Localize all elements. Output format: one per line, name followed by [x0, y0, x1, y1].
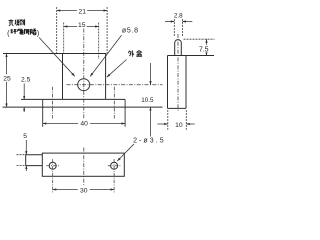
wire right hole centerline vertical: [113, 159, 115, 193]
wire plate right edge: [124, 99, 126, 126]
svg-text:(: (: [7, 28, 10, 37]
wire horizontal centerline: [67, 84, 163, 86]
node label-case-text: [128, 51, 142, 57]
wire plate left edge: [42, 99, 44, 126]
svg-text:10.5: 10.5: [141, 97, 154, 104]
wire left hole crosshair horizontal: [46, 165, 59, 167]
node bottom-view: [26, 148, 125, 193]
wire label-filler-leader: [39, 38, 75, 77]
node side-view: [168, 34, 215, 111]
wire case left wall: [62, 54, 64, 100]
svg-text:2.8: 2.8: [174, 12, 183, 19]
svg-text:ø5.8: ø5.8: [122, 28, 139, 35]
svg-text:30: 30: [80, 187, 88, 194]
svg-text:2.5: 2.5: [21, 77, 31, 84]
node dim-10.5: [141, 63, 154, 137]
node front-view: [3, 29, 163, 127]
node dim-5: [17, 133, 28, 171]
node label-filler-text: [7, 19, 39, 37]
node dim-7.5: [184, 39, 215, 55]
node dim-25: [3, 54, 12, 108]
wire terminal tab: [175, 40, 182, 56]
node dim-30: [53, 186, 114, 194]
svg-text:10: 10: [175, 122, 183, 129]
wire right hole centerline: [113, 87, 115, 119]
wire body top edge with 7.5 extension: [168, 55, 215, 57]
node dim-40: [43, 119, 125, 128]
wire label-dia5.8-leader: [90, 35, 121, 76]
node dim-15: [64, 22, 99, 60]
wire right hole crosshair horizontal: [108, 165, 121, 167]
node dim-2.8: [165, 12, 192, 36]
wire left hole centerline vertical: [52, 159, 54, 193]
svg-text:5: 5: [23, 133, 27, 140]
wire label-2-dia3.5-leader: [117, 144, 134, 161]
svg-text:21: 21: [78, 8, 86, 15]
svg-text:): ): [37, 29, 39, 38]
svg-text:15: 15: [78, 22, 86, 29]
node mounting hole left: [49, 162, 56, 169]
svg-text:25: 25: [3, 76, 11, 83]
wire plate bottom edge H2 with extensions: [3, 106, 163, 108]
wire case top edge with 25-dim extension: [3, 53, 106, 55]
wire bottom view centerline: [83, 148, 85, 187]
svg-text:40: 40: [80, 121, 88, 128]
wire body bottom edge: [168, 107, 187, 109]
svg-text:7.5: 7.5: [199, 47, 209, 54]
wire label-case-leader: [107, 60, 127, 78]
wire body left edge: [167, 56, 169, 109]
wire plate top edge H1: [21, 98, 125, 100]
node dim-10-side: [158, 110, 195, 130]
wire vertical centerline: [83, 29, 85, 121]
node mounting hole right: [111, 162, 118, 169]
node hole circle: [78, 79, 90, 91]
node dim-21: [57, 7, 107, 53]
svg-text:2-ø3.5: 2-ø3.5: [133, 138, 164, 145]
wire body right edge: [185, 56, 187, 109]
wire case protrusion: [26, 155, 43, 166]
wire bracket plate outline: [42, 153, 124, 176]
wire case right wall: [105, 54, 107, 100]
node dim-2.5: [21, 77, 31, 113]
wire left hole centerline: [52, 87, 54, 119]
wire side centerline: [177, 34, 179, 111]
